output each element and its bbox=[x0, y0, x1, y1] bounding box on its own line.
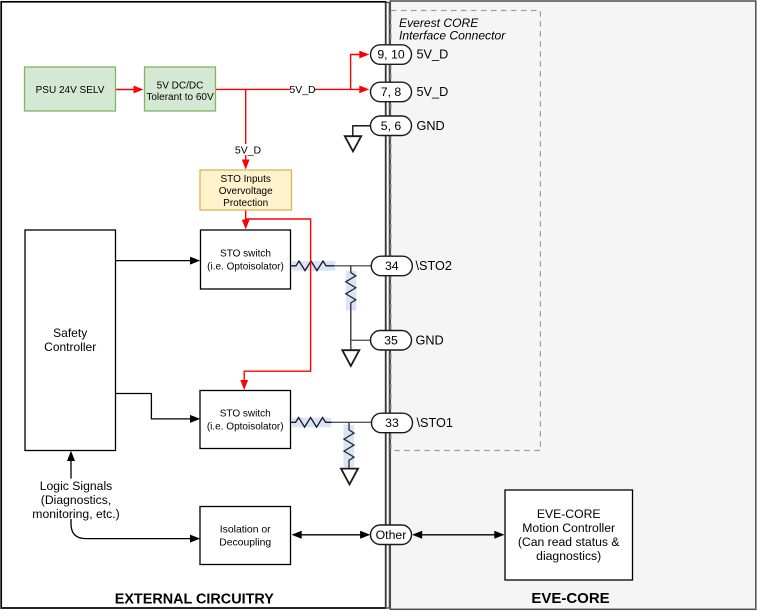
svg-text:5V_D: 5V_D bbox=[289, 84, 316, 96]
svg-text:9, 10: 9, 10 bbox=[377, 48, 405, 62]
svg-text:EXTERNAL CIRCUITRY: EXTERNAL CIRCUITRY bbox=[115, 591, 275, 607]
svg-text:7, 8: 7, 8 bbox=[381, 85, 402, 99]
svg-text:34: 34 bbox=[385, 259, 399, 273]
svg-text:monitoring, etc.): monitoring, etc.) bbox=[32, 507, 119, 521]
svg-text:5, 6: 5, 6 bbox=[381, 119, 402, 133]
svg-text:Interface Connector: Interface Connector bbox=[399, 29, 506, 43]
svg-text:Other: Other bbox=[376, 528, 407, 542]
svg-text:STO switch: STO switch bbox=[220, 249, 271, 260]
svg-text:Overvoltage: Overvoltage bbox=[219, 186, 273, 197]
svg-text:Isolation or: Isolation or bbox=[220, 525, 271, 536]
svg-text:(i.e. Optoisolator): (i.e. Optoisolator) bbox=[207, 262, 284, 273]
svg-text:(Diagnostics,: (Diagnostics, bbox=[41, 493, 111, 507]
svg-text:\STO2: \STO2 bbox=[416, 259, 452, 273]
svg-text:5V_D: 5V_D bbox=[417, 48, 449, 62]
svg-text:Safety: Safety bbox=[53, 326, 87, 340]
svg-text:Logic Signals: Logic Signals bbox=[40, 479, 113, 493]
svg-text:STO switch: STO switch bbox=[220, 409, 271, 420]
svg-text:EVE-CORE: EVE-CORE bbox=[537, 507, 601, 521]
svg-text:Motion Controller: Motion Controller bbox=[522, 521, 615, 535]
svg-text:PSU 24V SELV: PSU 24V SELV bbox=[36, 85, 105, 96]
svg-text:Controller: Controller bbox=[44, 340, 96, 354]
svg-text:(Can read status &: (Can read status & bbox=[518, 535, 620, 549]
svg-text:33: 33 bbox=[385, 416, 399, 430]
svg-text:EVE-CORE: EVE-CORE bbox=[531, 590, 609, 607]
svg-text:5V_D: 5V_D bbox=[417, 85, 449, 99]
svg-text:(i.e. Optoisolator): (i.e. Optoisolator) bbox=[207, 422, 284, 433]
svg-text:GND: GND bbox=[416, 333, 444, 347]
svg-text:Decoupling: Decoupling bbox=[219, 538, 271, 549]
svg-text:\STO1: \STO1 bbox=[417, 416, 453, 430]
svg-text:STO Inputs: STO Inputs bbox=[220, 174, 270, 185]
svg-text:GND: GND bbox=[417, 119, 445, 133]
svg-text:Tolerant to 60V: Tolerant to 60V bbox=[146, 92, 214, 103]
svg-text:diagnostics): diagnostics) bbox=[536, 549, 601, 563]
svg-text:5V DC/DC: 5V DC/DC bbox=[157, 81, 204, 92]
svg-text:Protection: Protection bbox=[223, 198, 268, 209]
svg-text:5V_D: 5V_D bbox=[235, 144, 262, 156]
svg-text:35: 35 bbox=[384, 333, 398, 347]
